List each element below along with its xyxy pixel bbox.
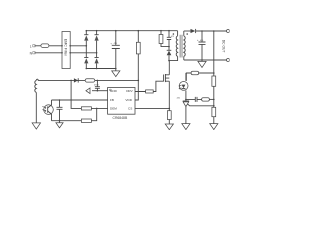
bridge diode D4	[95, 58, 99, 64]
label DC OUT	[222, 40, 226, 53]
node comp	[185, 99, 187, 101]
transformer T1 primary winding	[176, 31, 177, 57]
ground TL431	[182, 124, 190, 130]
label tl431 value	[177, 98, 181, 100]
resistor R6 dem lower	[81, 108, 96, 122]
wire dem left rail	[71, 80, 81, 108]
node comp rail	[213, 99, 215, 101]
node C2 top	[168, 30, 170, 32]
fuse F1	[41, 44, 49, 48]
node bridge right mid	[96, 52, 98, 54]
resistor R10 divider lower	[212, 107, 216, 116]
wire divider rail	[213, 31, 215, 124]
svg-text:DC OUT: DC OUT	[222, 40, 226, 53]
node divider top	[213, 30, 215, 32]
ground output cap	[198, 60, 206, 67]
svg-text:EMC Filter: EMC Filter	[64, 39, 68, 57]
svg-text:N: N	[30, 51, 33, 55]
resistor R1 startup	[136, 31, 140, 81]
node R2 top	[160, 30, 162, 32]
capacitor C1 bulk	[110, 31, 119, 69]
node dem junction	[96, 108, 98, 110]
TL431 U3	[183, 99, 214, 123]
ground opto	[56, 121, 63, 128]
ground bulk cap	[112, 69, 120, 77]
node FB cap top	[59, 99, 61, 101]
bridge diode D1	[84, 35, 88, 41]
node snubber bottom	[168, 46, 170, 48]
transformer T1 secondary winding	[184, 31, 185, 60]
node bridge bottom right	[96, 68, 98, 70]
node bridge left mid	[86, 45, 88, 47]
node vdd feed	[138, 80, 140, 82]
diode D6 aux	[74, 78, 78, 82]
node ref rail	[213, 105, 215, 107]
wire F1 to EMC	[49, 45, 62, 47]
wire EMC lower output to bridge	[70, 52, 96, 54]
wire bridge bottom bus	[86, 68, 116, 70]
svg-text:431: 431	[177, 98, 181, 100]
wire return line	[184, 59, 227, 61]
svg-text:FB: FB	[110, 98, 114, 102]
node bias tap	[213, 72, 215, 74]
node R1 top	[138, 30, 140, 32]
node bridge top left	[86, 30, 88, 32]
svg-text:GND: GND	[110, 89, 118, 93]
wire aux rail	[38, 79, 139, 81]
EMC filter block	[61, 32, 71, 69]
svg-text:470: 470	[114, 43, 117, 45]
svg-text:VDD: VDD	[125, 98, 132, 102]
node polarity dot primary	[173, 33, 175, 35]
wire secondary top	[184, 30, 191, 32]
label tiny value	[94, 84, 99, 86]
wire bridge right column	[96, 31, 98, 69]
node opto gnd	[59, 120, 61, 122]
resistor R3 gate	[135, 81, 164, 93]
optocoupler U2 LED	[179, 73, 188, 99]
capacitor C5 output	[197, 31, 206, 60]
node bridge top right	[96, 30, 98, 32]
terminal DC out minus	[227, 59, 230, 62]
node polarity dot secondary	[186, 33, 188, 35]
wire L lead	[35, 45, 41, 47]
ground aux winding	[32, 123, 40, 129]
resistor R9 divider upper	[212, 76, 216, 86]
MOSFET Q1	[164, 61, 170, 109]
wire vdd feed	[135, 80, 138, 100]
node out cap bottom	[201, 59, 203, 61]
ground divider	[210, 124, 218, 130]
ground sense resistor	[165, 124, 173, 130]
ground IC gnd pin	[86, 88, 108, 94]
wire out plus	[196, 30, 227, 32]
node bridge bottom left	[86, 68, 88, 70]
output diode D7	[191, 29, 196, 33]
node vdd cap bottom	[97, 90, 99, 92]
comp resistor R11	[202, 98, 214, 101]
wire N to EMC	[35, 52, 63, 54]
bridge diode D3	[84, 58, 88, 64]
IC U1 CR6848B	[108, 88, 135, 120]
resistor R4 aux	[85, 79, 95, 82]
snubber resistor R2	[159, 31, 169, 47]
node vdd cap top	[97, 80, 99, 82]
svg-text:L: L	[30, 44, 32, 48]
input terminal L	[30, 44, 32, 48]
comp capacitor C6	[186, 97, 202, 102]
svg-text:4703: 4703	[94, 84, 99, 86]
wire FB row	[52, 99, 108, 101]
svg-text:472: 472	[171, 36, 174, 38]
wire DC bus top	[86, 30, 177, 32]
node aux dem tap	[70, 80, 72, 82]
bridge diode D2	[95, 35, 99, 41]
transformer core	[180, 35, 182, 58]
wire EMC upper output to bridge	[70, 45, 86, 47]
node drain	[168, 60, 170, 62]
wire emitter gnd row	[52, 120, 82, 122]
resistor R5 dem upper	[81, 107, 107, 110]
optocoupler U2 phototransistor	[42, 100, 53, 121]
snubber diode D5	[167, 47, 172, 61]
node CS	[169, 108, 171, 110]
node out cap top	[201, 30, 203, 32]
svg-text:CS: CS	[128, 107, 132, 111]
node bulk cap top	[115, 30, 117, 32]
wire drain node row	[169, 56, 178, 60]
label c2 value	[171, 36, 174, 38]
terminal DC out plus	[227, 30, 230, 33]
snubber capacitor C2	[167, 31, 171, 47]
svg-text:DEM: DEM	[110, 107, 117, 111]
input terminal N	[30, 51, 33, 55]
aux winding L2	[35, 79, 39, 92]
wire CS row	[135, 107, 169, 109]
svg-text:CR6848B: CR6848B	[113, 116, 128, 120]
capacitor C4 fb	[57, 100, 63, 121]
svg-text:DRV: DRV	[126, 89, 133, 93]
svg-text:470: 470	[200, 40, 203, 42]
capacitor C3 vdd	[95, 80, 100, 90]
wire bridge left column	[85, 31, 87, 69]
resistor R8 bias	[186, 71, 214, 81]
node bulk cap bottom	[115, 68, 117, 70]
resistor R7 sense	[167, 108, 171, 124]
wire aux bottom lead	[35, 92, 37, 122]
